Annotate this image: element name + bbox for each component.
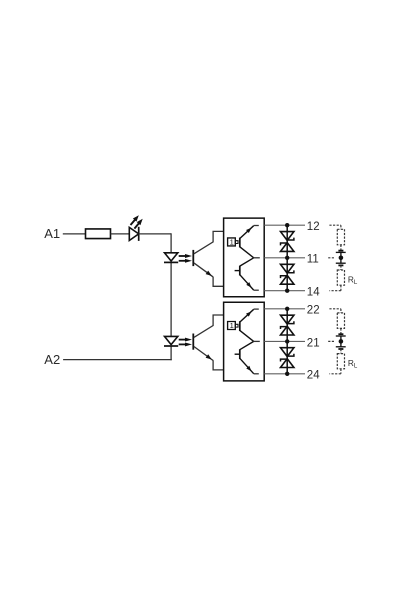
external load circuit (dashed) channel 2 (328, 309, 358, 374)
node junction 22 (285, 307, 289, 311)
node junction 12 (285, 223, 289, 227)
wire terminal line 14 (264, 290, 305, 292)
TVS suppressor diode D2a between 22 and 21 (281, 309, 294, 342)
transistor lower of U1 (239, 266, 241, 276)
node junction 21 (285, 339, 289, 343)
wire terminal line 22 (264, 308, 305, 310)
external load resistor upper channel 1 (337, 229, 344, 245)
wire between opto LEDs (170, 263, 172, 337)
phototransistor collector wire Q1 (194, 231, 224, 253)
dashed stub from 21 (328, 340, 334, 342)
wire through external node (340, 252, 342, 263)
wire terminal line 24 (264, 373, 305, 375)
dashed wire from 22 (329, 308, 341, 310)
wire A2 (63, 359, 172, 361)
opto light arrow lower OK1 (179, 260, 186, 262)
contact bar short lower (338, 348, 343, 350)
contact bar long upper (336, 251, 346, 253)
opto light arrow lower OK2 (179, 343, 186, 345)
dashed stub from 11 (328, 257, 334, 259)
wire terminal line 12 (264, 224, 305, 226)
driver square 1 of U1 (228, 238, 236, 246)
external load circuit (dashed) channel 1 (328, 225, 358, 291)
svg-text:21: 21 (307, 337, 320, 349)
dashed wire down (340, 309, 342, 313)
svg-text:A2: A2 (44, 352, 60, 367)
node external junction 21 (339, 339, 344, 344)
dashed wire to 24 (329, 373, 341, 375)
wire down to opto LED 1 (170, 233, 172, 253)
TVS suppressor diode D1a between 12 and 11 (281, 225, 294, 258)
phototransistor collector wire Q2 (194, 315, 224, 337)
external load resistor RL lower channel 2 (337, 354, 344, 369)
dashed wire (340, 369, 342, 374)
svg-text:12: 12 (307, 221, 320, 233)
dashed wire (340, 328, 342, 334)
opto light arrow upper OK2 (179, 339, 186, 341)
contact bar short upper (338, 250, 343, 252)
optocoupler OK1 (164, 231, 224, 286)
dashed wire to 14 (329, 290, 341, 292)
TVS suppressor diode D2b between 21 and 24 (281, 341, 294, 373)
opto LED triangle OK1 (165, 253, 178, 261)
contact bar long lower (336, 262, 346, 264)
svg-text:14: 14 (307, 287, 320, 299)
contact bar short lower (338, 264, 343, 266)
external load resistor upper channel 2 (337, 313, 344, 329)
phototransistor emitter wire with arrow Q1 (194, 263, 213, 277)
indicator LED D1 (129, 215, 142, 241)
contact bar long lower (336, 346, 346, 348)
opto LED triangle OK2 (165, 336, 178, 344)
wire resistor to LED (111, 233, 130, 235)
resistor R1 (86, 229, 111, 239)
wire A1 to resistor (63, 233, 86, 235)
IC box U1 (224, 218, 265, 297)
svg-text:22: 22 (307, 305, 320, 317)
svg-text:1: 1 (230, 237, 234, 246)
transistor lower of U2 (239, 349, 241, 359)
LED light arrow 1 (131, 220, 135, 225)
driver square 1 of U2 (228, 322, 236, 330)
svg-text:11: 11 (307, 254, 319, 266)
phototransistor emitter wire with arrow Q2 (194, 347, 213, 361)
svg-text:1: 1 (230, 321, 234, 330)
opto light arrow upper OK1 (179, 255, 186, 257)
contact bar short upper (338, 333, 343, 335)
IC output stage U2 (224, 302, 265, 381)
node junction 14 (285, 289, 289, 293)
IC box U2 (224, 302, 265, 381)
TVS suppressor diode D1b between 11 and 14 (281, 258, 294, 291)
dashed wire (340, 245, 342, 251)
optocoupler OK2 (164, 315, 224, 370)
phototransistor bar Q1 (192, 250, 194, 266)
wire terminal line 11 (264, 257, 305, 259)
IC output stage U1 (224, 218, 265, 297)
wire down to A2 corner (170, 346, 172, 360)
phototransistor bar Q2 (192, 334, 194, 350)
transistor upper of U1 (239, 238, 241, 248)
driver output bump U2 (235, 324, 238, 327)
driver output bump U1 (235, 241, 238, 244)
opto LED cathode bar OK2 (164, 345, 178, 347)
LED light arrow 2 (134, 223, 138, 228)
dashed wire (340, 349, 342, 354)
wire terminal line 21 (264, 340, 305, 342)
transistor upper of U2 (239, 321, 241, 331)
svg-text:24: 24 (307, 370, 320, 382)
LED D1 cathode bar (138, 227, 140, 241)
dashed wire from 12 (329, 224, 341, 226)
contact bar long upper (336, 335, 346, 337)
node junction 24 (285, 372, 289, 376)
dashed wire (340, 265, 342, 270)
wire through external node (340, 336, 342, 347)
wire LED to corner (139, 233, 171, 235)
node junction 11 (285, 256, 289, 260)
dashed wire down (340, 225, 342, 229)
opto LED cathode bar OK1 (164, 261, 178, 263)
svg-text:A1: A1 (44, 226, 60, 241)
dashed wire (340, 285, 342, 291)
external load resistor RL lower channel 1 (337, 270, 344, 285)
node external junction 11 (339, 255, 344, 260)
LED D1 triangle (129, 227, 138, 240)
